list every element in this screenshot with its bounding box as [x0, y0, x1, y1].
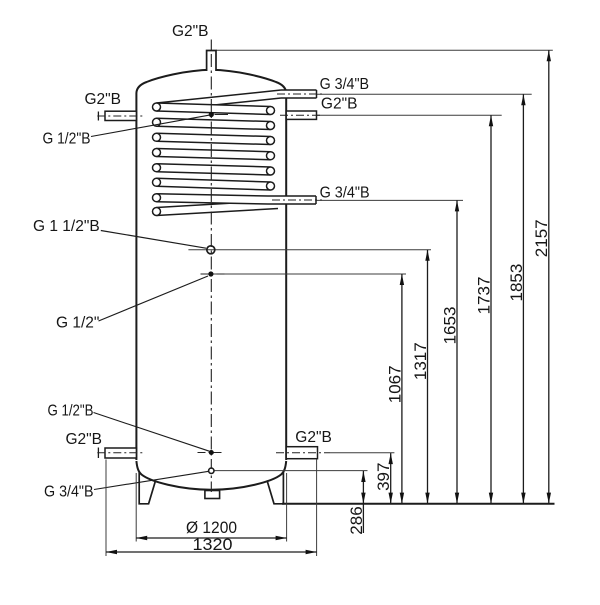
ground baseline	[282, 503, 555, 505]
centerline lower-right G3/4 stub	[272, 199, 322, 201]
leader G 3/4"B bottom	[94, 471, 209, 489]
extension line 1067	[213, 273, 406, 275]
right stub G2"B (lower)	[286, 447, 317, 459]
bottom drain stub	[205, 491, 220, 499]
coil tube 2	[157, 118, 271, 129]
coil tube 5	[157, 164, 271, 175]
centerline lower-right G2 stub	[276, 452, 330, 454]
dimension line 1317	[427, 250, 429, 504]
extension lines diameter 1200	[135, 473, 137, 542]
extension line 1653	[316, 199, 463, 201]
coil tube 3	[157, 133, 271, 144]
centerline top-right G3/4 stub	[277, 93, 322, 95]
tank body outline	[136, 70, 286, 460]
svg-text:1067: 1067	[385, 365, 404, 403]
svg-text:G 1/2"B: G 1/2"B	[43, 131, 91, 148]
svg-text:G2"B: G2"B	[172, 23, 209, 40]
svg-text:G2"B: G2"B	[66, 431, 103, 448]
drain point G 3/4"B	[209, 468, 214, 473]
svg-text:G2"B: G2"B	[295, 429, 332, 446]
svg-text:G 1/2": G 1/2"	[56, 315, 99, 332]
svg-text:G2"B: G2"B	[85, 91, 122, 108]
dimension line diameter 1200	[136, 537, 286, 539]
leader G 1 1/2"B	[101, 231, 206, 249]
svg-text:286: 286	[347, 506, 366, 534]
svg-text:1317: 1317	[411, 342, 430, 380]
svg-text:1653: 1653	[440, 307, 459, 345]
centerline top-left stub	[97, 115, 142, 117]
centerline lower-left stub	[97, 452, 142, 454]
centerline vertical	[210, 54, 212, 492]
svg-text:G 1/2"B: G 1/2"B	[48, 403, 94, 420]
coil tube 4	[157, 149, 271, 160]
dimension line 1737	[490, 115, 492, 503]
dimension line 397	[390, 453, 392, 504]
dimension line 2157	[548, 50, 550, 503]
dimension line 1320	[106, 551, 317, 553]
right stub G2"B (upper)	[286, 111, 316, 119]
svg-text:2157: 2157	[532, 219, 551, 257]
svg-text:G 3/4"B: G 3/4"B	[320, 76, 370, 93]
svg-text:1737: 1737	[474, 277, 493, 315]
coil tube 1	[157, 103, 271, 115]
connection point G 1/2"	[201, 273, 226, 275]
left stub tick (lower)	[97, 448, 99, 459]
leader G 1/2"B lower	[94, 413, 210, 452]
svg-text:397: 397	[374, 463, 393, 491]
coil right end circles	[267, 107, 275, 115]
extension line 1737	[317, 114, 502, 116]
leader top G2"B	[210, 40, 212, 51]
coil entry tube (to top right G 3/4"B)	[157, 90, 317, 111]
coil tube 7 + exit stub G 3/4"B	[157, 194, 317, 204]
connection point G 1 1/2"B	[207, 246, 215, 254]
left stub G2"B (upper)	[105, 111, 136, 120]
leader G 1/2"B (coil)	[91, 115, 211, 137]
connection point G 1/2"B (lower)	[198, 452, 223, 454]
leader G 1/2"	[99, 276, 209, 321]
svg-text:G 1 1/2"B: G 1 1/2"B	[33, 218, 100, 235]
left leg	[139, 472, 155, 504]
coil left end circles	[153, 103, 161, 111]
dimension line 1853	[522, 94, 524, 503]
svg-text:1320: 1320	[193, 535, 233, 554]
left stub G2"B (lower)	[105, 448, 136, 458]
dimension line 286	[362, 471, 364, 533]
dimension line 1067	[401, 274, 403, 504]
extension line 286	[214, 470, 367, 472]
left stub tick (upper)	[97, 112, 99, 121]
tank dished bottom	[136, 461, 286, 490]
top connection stub G2"B	[207, 51, 216, 72]
right leg	[267, 472, 283, 504]
dimension line 1653	[456, 200, 458, 503]
svg-text:G2"B: G2"B	[321, 96, 358, 113]
extension line 2157	[216, 49, 553, 51]
sensor point in coil (G 1/2"B)	[215, 114, 229, 116]
svg-text:G 3/4"B: G 3/4"B	[320, 185, 370, 202]
extension line 1853	[317, 93, 532, 95]
extension line 397	[330, 452, 394, 454]
extension line 1317	[188, 249, 431, 251]
coil tube 8 (bottom, rises to exit)	[157, 201, 278, 216]
svg-text:G 3/4"B: G 3/4"B	[44, 484, 94, 501]
svg-text:1853: 1853	[507, 264, 526, 302]
coil tube 6	[157, 178, 271, 190]
extension lines 1320	[105, 460, 107, 557]
centerline right G2 stub	[280, 114, 322, 116]
